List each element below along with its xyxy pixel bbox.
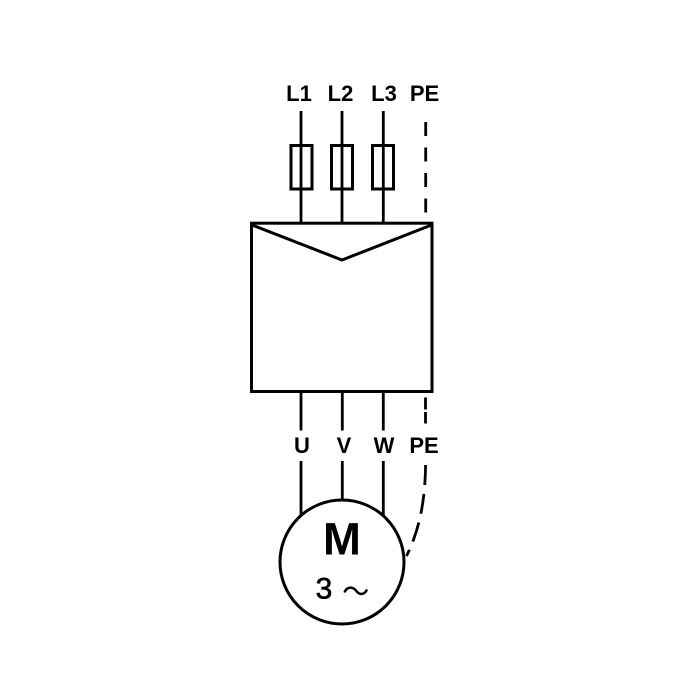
fuse F2 (332, 146, 353, 190)
starter box V notch (252, 225, 432, 260)
wire U output stub (300, 391, 303, 431)
svg-text:L1: L1 (286, 81, 312, 106)
motor M1 tilde (AC symbol) (345, 588, 368, 594)
fuse F3 (373, 146, 394, 190)
svg-text:L3: L3 (371, 81, 397, 106)
svg-text:L2: L2 (328, 81, 354, 106)
wire PE dashed curve to motor (407, 461, 426, 556)
wire W output stub (382, 391, 385, 431)
svg-text:PE: PE (410, 81, 439, 106)
starter box U1 (252, 223, 433, 391)
wire L1 input (300, 111, 303, 224)
svg-text:U: U (294, 433, 310, 458)
wire PE dashed (top) (424, 122, 427, 223)
svg-text:PE: PE (409, 433, 438, 458)
wire W to motor (382, 461, 385, 520)
svg-text:W: W (374, 433, 395, 458)
wire L3 input (382, 111, 385, 224)
wire V to motor (341, 461, 344, 505)
fuse F1 (291, 146, 312, 190)
wire U to motor (300, 461, 303, 520)
svg-text:V: V (337, 433, 352, 458)
motor M1 circle (280, 500, 404, 624)
wire L2 input (341, 111, 344, 224)
wire PE dashed stub below box (424, 398, 427, 424)
wire V output stub (341, 391, 344, 431)
svg-text:M: M (323, 514, 361, 565)
svg-text:3: 3 (316, 573, 333, 606)
